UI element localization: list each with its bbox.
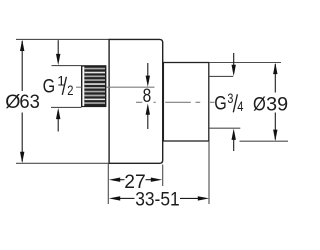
label Ø63 [5,91,40,113]
wire: G1/2 lower extension line [51,106,82,108]
node: small cylinder (G3/4 spigot, side view) [163,63,208,142]
dimension G1/2 arrows [56,40,60,131]
node: main body (large cylinder, side view) [109,39,163,163]
dimension 27 horizontal with arrows [109,178,162,182]
node: G1/2 centerline [76,86,81,88]
wire: G1/2 upper extension line [52,65,82,67]
dimension G3/4 arrows [232,53,236,151]
wire: 27 right extension line [162,165,164,187]
label G1/2 [43,73,74,98]
svg-text:G: G [214,93,227,115]
wire: 33-51 right extension line [208,141,210,204]
svg-text:63: 63 [19,91,40,113]
svg-text:2: 2 [67,82,73,98]
svg-text:8: 8 [143,86,152,107]
dimension 8 arrows [146,63,150,129]
wire: Ø63 bottom extension line [16,162,110,164]
node: knurled nut (G1/2 connection) [82,66,106,107]
svg-text:39: 39 [266,93,288,115]
svg-text:33-51: 33-51 [135,189,180,211]
svg-text:G: G [43,75,56,97]
wire: 27 / 33-51 left extension line [107,164,109,204]
svg-text:Ø: Ø [253,93,266,115]
label G3/4 [214,90,243,115]
label Ø39 [253,93,288,115]
svg-text:4: 4 [237,98,243,114]
dimension Ø63 vertical line with arrows [20,40,24,164]
node: main centerline (dash-dot) [136,101,215,103]
svg-text:Ø: Ø [5,91,20,113]
wire: Ø39 top extension line [209,62,281,64]
wire: Ø63 top extension line [16,38,110,40]
svg-text:3: 3 [227,90,233,106]
wire: G3/4 bottom extension line [209,127,240,129]
wire: G3/4 top extension line [209,75,233,77]
dimension 33-51 horizontal with arrows [109,196,209,200]
wire: Ø39 bottom extension line [240,140,289,142]
dimension Ø39 vertical line with arrows [273,63,277,141]
